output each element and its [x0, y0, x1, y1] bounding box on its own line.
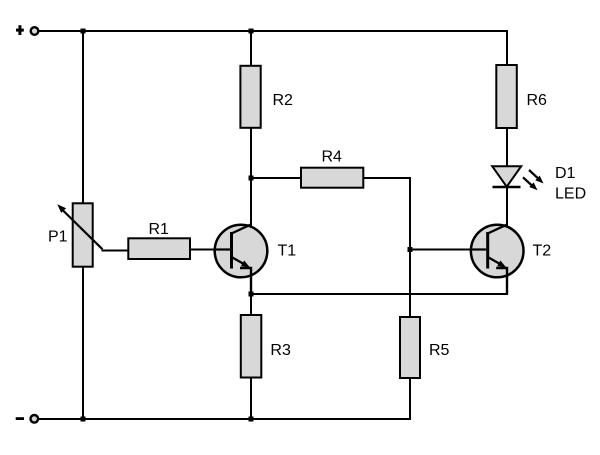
- svg-text:R6: R6: [527, 92, 548, 109]
- potentiometer P1 wiper arrow: [57, 204, 102, 249]
- svg-text:R3: R3: [270, 342, 291, 359]
- resistor R5: [400, 317, 420, 378]
- label - (negative supply marker): [16, 417, 24, 420]
- junction: T1 emitter node: [249, 292, 254, 297]
- svg-text:R4: R4: [322, 149, 343, 166]
- resistor R4: [301, 168, 363, 188]
- potentiometer P1 body: [73, 203, 93, 266]
- wire: P1 bottom lead: [82, 266, 84, 420]
- resistor R3: [241, 315, 261, 378]
- svg-text:D1: D1: [555, 165, 576, 182]
- junction: top rail / P1 branch: [81, 29, 86, 34]
- terminal: negative supply: [31, 415, 39, 423]
- svg-text:P1: P1: [48, 229, 68, 246]
- wire: collector node to R4: [251, 177, 302, 179]
- wire: R3 to bottom rail: [250, 377, 252, 421]
- wire: R5 to bottom rail: [409, 378, 411, 421]
- label + (positive supply marker): [16, 25, 24, 35]
- wire: emitter node to R3: [250, 294, 252, 316]
- svg-text:T1: T1: [278, 243, 297, 260]
- wire: D1 cathode to T2 collector: [506, 188, 508, 227]
- svg-text:T2: T2: [533, 243, 552, 260]
- transistor T2: [471, 224, 524, 294]
- svg-text:R5: R5: [429, 342, 450, 359]
- junction: R2 / R4 / T1 collector node: [249, 176, 254, 181]
- terminal: positive supply: [31, 27, 39, 35]
- svg-text:R1: R1: [149, 221, 170, 238]
- junction: bottom rail / P1: [81, 417, 86, 422]
- wire: R4 to divider column: [363, 178, 410, 318]
- led D1: [492, 166, 543, 190]
- wire: P1 wiper to R1: [102, 250, 130, 252]
- wire: base node to T2 base: [410, 249, 472, 251]
- transistor T1: [215, 224, 268, 294]
- wire: common emitter rail: [251, 293, 508, 295]
- resistor R2: [240, 66, 260, 128]
- wire: R6 to D1 anode: [506, 127, 508, 167]
- wire: bottom supply rail: [39, 418, 412, 420]
- resistor R6: [496, 65, 517, 128]
- wire: P1 top lead: [82, 31, 84, 205]
- wire: R1 to T1 base: [190, 249, 216, 251]
- wire: R2 top lead: [250, 30, 252, 67]
- svg-text:LED: LED: [555, 186, 586, 203]
- wire: R2 bottom to T1 collector: [250, 127, 252, 227]
- junction: T2 base node: [408, 247, 413, 252]
- resistor R1: [128, 238, 190, 259]
- wire: top supply rail: [39, 31, 508, 67]
- junction: top rail / R2 branch: [249, 29, 254, 34]
- junction: bottom rail / R3: [249, 417, 254, 422]
- svg-text:R2: R2: [273, 92, 294, 109]
